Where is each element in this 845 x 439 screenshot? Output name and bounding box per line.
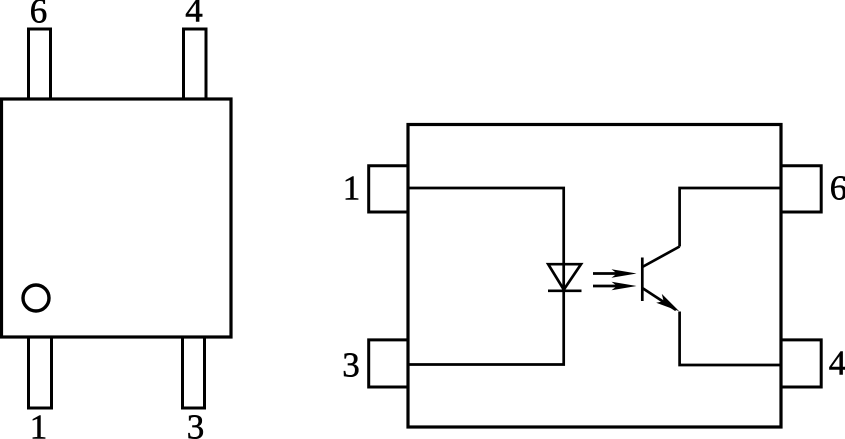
pin 3 tab	[369, 340, 408, 387]
wire: pin1 tab through LED to pin3 tab	[408, 188, 564, 365]
emitter arrowhead	[656, 294, 679, 311]
svg-text:4: 4	[185, 0, 203, 30]
pin 4 lead	[184, 29, 207, 99]
pin 1 lead	[29, 337, 52, 408]
LED triangle (anode)	[548, 264, 581, 289]
pin-1 marker dot	[23, 285, 49, 311]
svg-text:4: 4	[829, 344, 845, 383]
schematic outline box	[408, 125, 781, 428]
svg-text:3: 3	[187, 408, 205, 439]
phototransistor base bar	[641, 258, 644, 302]
pin 4 tab	[781, 340, 821, 387]
package body (left, top view)	[2, 99, 232, 337]
svg-text:6: 6	[30, 0, 48, 31]
pin 3 lead	[183, 337, 205, 408]
svg-text:3: 3	[342, 346, 360, 385]
wire: collector to pin6 tab	[680, 188, 781, 247]
light arrowhead upper	[612, 269, 637, 277]
light arrow shafts	[593, 272, 624, 275]
emitter diagonal	[642, 288, 676, 310]
wire: emitter to pin4 tab	[680, 312, 781, 366]
svg-text:6: 6	[830, 169, 845, 208]
LED cathode bar	[548, 289, 582, 292]
pin 1 tab	[369, 166, 408, 212]
pin 6 tab	[781, 166, 821, 212]
pin 6 lead	[29, 29, 51, 99]
svg-text:1: 1	[343, 169, 361, 208]
light arrowhead lower	[612, 282, 637, 290]
svg-text:1: 1	[30, 408, 48, 439]
collector diagonal	[642, 247, 679, 268]
